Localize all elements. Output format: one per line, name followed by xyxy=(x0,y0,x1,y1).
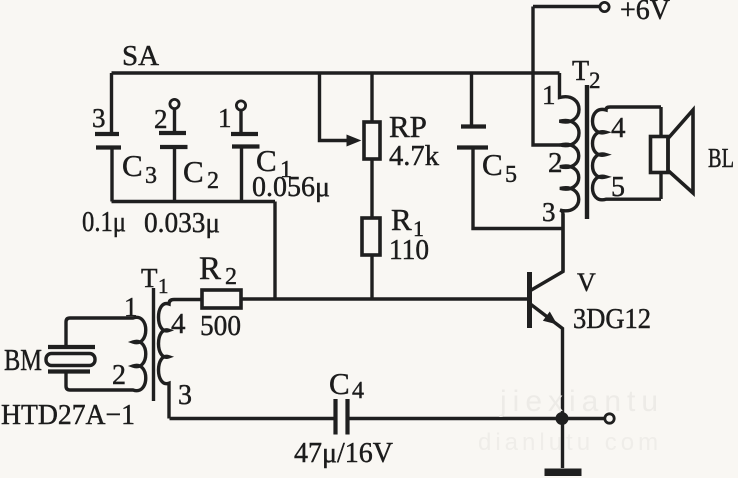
svg-text:110: 110 xyxy=(389,235,429,266)
svg-text:3: 3 xyxy=(542,197,556,227)
svg-text:0.1μ: 0.1μ xyxy=(82,207,126,238)
svg-text:2: 2 xyxy=(112,360,126,391)
svg-text:dianlutu com: dianlutu com xyxy=(478,429,662,456)
svg-text:2: 2 xyxy=(225,264,237,290)
svg-text:C: C xyxy=(482,147,503,182)
svg-text:5: 5 xyxy=(611,172,625,203)
svg-text:R: R xyxy=(199,251,221,287)
svg-text:2: 2 xyxy=(548,147,563,179)
svg-text:C: C xyxy=(122,148,143,183)
svg-text:1: 1 xyxy=(218,103,232,133)
svg-text:2: 2 xyxy=(589,68,601,93)
svg-text:3: 3 xyxy=(145,163,157,189)
svg-text:0.033μ: 0.033μ xyxy=(144,208,220,239)
svg-text:R: R xyxy=(391,202,412,237)
svg-text:47μ/16V: 47μ/16V xyxy=(294,437,393,469)
svg-text:SA: SA xyxy=(122,40,159,72)
svg-text:3: 3 xyxy=(178,380,192,411)
svg-text:jiexiantu: jiexiantu xyxy=(499,385,664,418)
svg-text:4: 4 xyxy=(352,378,364,404)
svg-text:2: 2 xyxy=(154,104,168,134)
svg-text:T: T xyxy=(572,56,589,87)
svg-text:2: 2 xyxy=(207,168,219,194)
svg-text:RP: RP xyxy=(389,109,427,144)
svg-text:BL: BL xyxy=(708,143,734,173)
svg-text:C: C xyxy=(329,366,350,401)
svg-text:4: 4 xyxy=(611,112,626,144)
svg-text:+6V: +6V xyxy=(620,0,670,26)
svg-text:4: 4 xyxy=(171,308,186,340)
svg-text:0.056μ: 0.056μ xyxy=(252,172,330,203)
svg-text:4.7k: 4.7k xyxy=(389,141,439,172)
svg-text:HTD27A−1: HTD27A−1 xyxy=(1,399,135,431)
svg-text:3: 3 xyxy=(92,103,106,133)
svg-text:3DG12: 3DG12 xyxy=(573,304,651,335)
svg-text:1: 1 xyxy=(542,80,556,110)
svg-text:500: 500 xyxy=(200,310,241,342)
svg-text:C: C xyxy=(183,154,204,189)
svg-text:T: T xyxy=(141,263,158,293)
svg-text:1: 1 xyxy=(124,292,138,322)
svg-text:V: V xyxy=(577,268,596,297)
svg-text:1: 1 xyxy=(158,274,169,298)
svg-text:5: 5 xyxy=(505,162,517,188)
svg-text:BM: BM xyxy=(4,342,42,377)
